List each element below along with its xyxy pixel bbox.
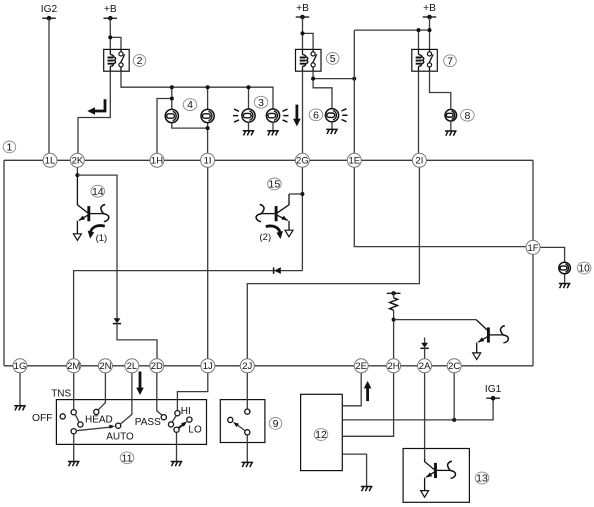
svg-text:+B: +B — [296, 3, 309, 14]
svg-text:1H: 1H — [151, 156, 163, 167]
svg-text:2A: 2A — [419, 361, 431, 372]
svg-text:2K: 2K — [72, 156, 84, 167]
svg-text:2G: 2G — [296, 156, 309, 167]
svg-text:2: 2 — [137, 55, 143, 67]
svg-text:6: 6 — [313, 109, 319, 121]
svg-text:AUTO: AUTO — [106, 431, 134, 442]
svg-text:2J: 2J — [242, 361, 252, 372]
svg-text:LO: LO — [188, 424, 202, 435]
svg-text:IG1: IG1 — [485, 384, 502, 395]
svg-text:HI: HI — [181, 406, 191, 417]
svg-text:1F: 1F — [527, 243, 538, 254]
svg-text:9: 9 — [273, 418, 279, 430]
svg-text:2E: 2E — [355, 361, 367, 372]
svg-text:(2): (2) — [260, 232, 272, 243]
svg-text:1J: 1J — [203, 361, 213, 372]
svg-text:1E: 1E — [348, 156, 360, 167]
svg-text:7: 7 — [447, 55, 453, 67]
svg-text:8: 8 — [464, 110, 470, 122]
svg-text:IG2: IG2 — [41, 4, 58, 15]
svg-text:5: 5 — [330, 53, 336, 65]
svg-text:1G: 1G — [14, 361, 27, 372]
svg-text:2I: 2I — [415, 156, 423, 167]
svg-text:1L: 1L — [45, 156, 56, 167]
svg-text:13: 13 — [476, 473, 488, 485]
svg-text:14: 14 — [92, 186, 104, 198]
svg-text:(1): (1) — [96, 233, 108, 244]
svg-text:4: 4 — [187, 99, 193, 111]
svg-text:2C: 2C — [448, 361, 460, 372]
svg-text:10: 10 — [579, 264, 591, 275]
svg-text:2H: 2H — [388, 361, 400, 372]
svg-text:PASS: PASS — [135, 417, 161, 428]
svg-text:2L: 2L — [127, 361, 138, 372]
svg-text:TNS: TNS — [51, 389, 71, 400]
svg-text:12: 12 — [315, 429, 327, 441]
svg-text:2D: 2D — [151, 361, 163, 372]
svg-text:1I: 1I — [204, 156, 212, 167]
svg-text:2N: 2N — [99, 361, 111, 372]
svg-text:3: 3 — [258, 97, 264, 109]
svg-text:+B: +B — [104, 4, 117, 15]
svg-text:2M: 2M — [67, 361, 80, 372]
svg-text:HEAD: HEAD — [85, 415, 113, 426]
svg-text:11: 11 — [122, 452, 133, 464]
svg-text:1: 1 — [6, 142, 12, 154]
svg-text:15: 15 — [269, 179, 281, 191]
svg-text:OFF: OFF — [32, 413, 53, 424]
svg-text:+B: +B — [423, 3, 436, 14]
